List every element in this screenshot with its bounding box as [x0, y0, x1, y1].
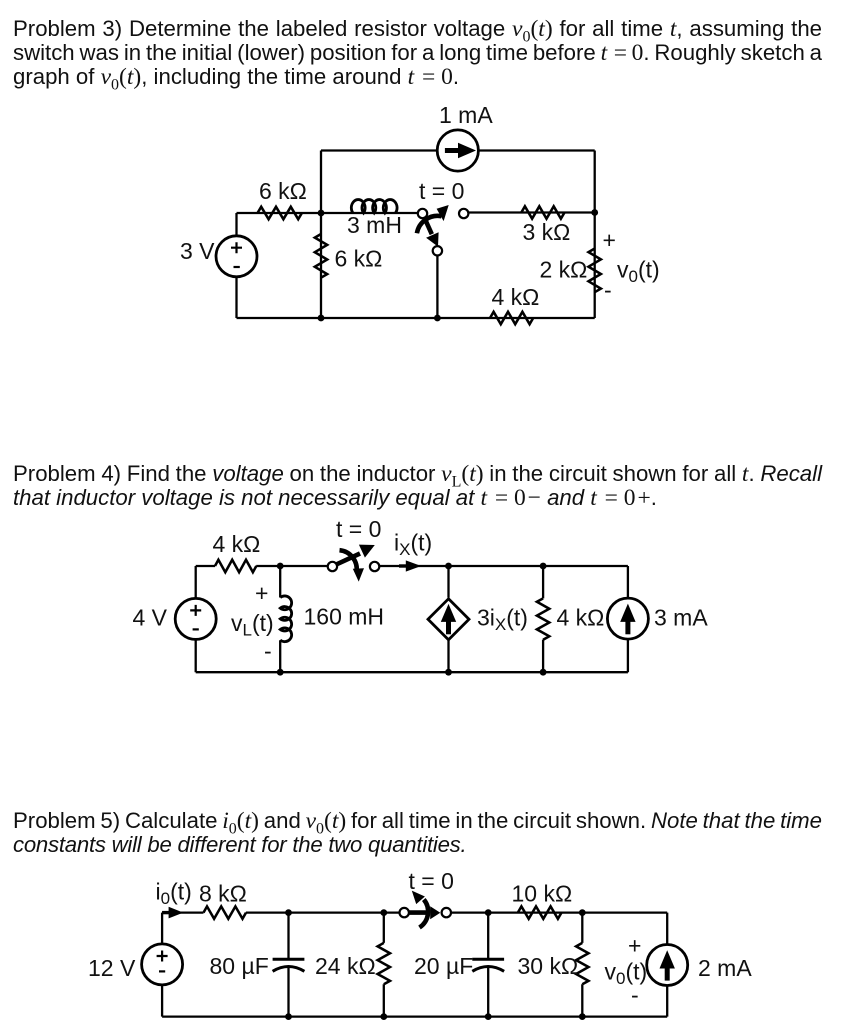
svg-text:t = 0: t = 0 — [419, 178, 464, 204]
Problem 4 statement — [13, 462, 822, 510]
svg-text:+: + — [603, 227, 616, 253]
junction dot P3 middle top — [318, 210, 325, 217]
svg-text:3 kΩ: 3 kΩ — [523, 219, 571, 245]
inductor 160mH P4 — [280, 596, 291, 642]
junction dot P5 30k bottom — [579, 1013, 586, 1020]
wire top-left horizontal P3 — [237, 212, 322, 214]
junction dot P5 24k bottom — [380, 1013, 387, 1020]
wire inductor branch P4 — [279, 566, 281, 672]
junction dot P3 middle bottom — [318, 315, 325, 322]
switch P5: left contact — [400, 908, 409, 917]
junction dot P5 20uF bottom — [485, 1013, 492, 1020]
svg-text:-: - — [631, 982, 639, 1008]
switch P5: arm closing right — [409, 910, 429, 915]
junction dot P5 20uF top — [485, 909, 492, 916]
Problem 3 statement — [13, 17, 822, 89]
wire inductor branch P3 — [321, 212, 418, 214]
junction dot P5 80uF bottom — [285, 1013, 292, 1020]
switch P3: pole contact — [418, 209, 427, 218]
voltage source 12V P5 — [142, 944, 183, 985]
wire switch bottom throw down P3 — [436, 256, 438, 318]
resistor 24k vertical P5 — [378, 943, 390, 984]
svg-text:4 V: 4 V — [133, 605, 168, 631]
voltage source 4V P4 — [175, 598, 216, 639]
wire left rail P5 — [161, 913, 163, 1017]
svg-text:3iX(t): 3iX(t) — [477, 605, 528, 635]
current direction arrow i0 P5 — [162, 911, 170, 914]
svg-text:-: - — [604, 277, 612, 303]
junction dot P4 dep source top — [445, 563, 452, 570]
svg-text:6 kΩ: 6 kΩ — [335, 246, 383, 272]
junction dot P4 dep source bottom — [445, 669, 452, 676]
wire middle vertical rail P3 — [320, 151, 322, 319]
resistor 10k P5 — [518, 906, 562, 918]
junction dot P5 24k top — [380, 909, 387, 916]
Problem 5 statement — [13, 809, 822, 857]
junction dot P4 inductor top — [277, 563, 284, 570]
svg-text:vL(t): vL(t) — [231, 610, 274, 640]
wire 3mA branch P4 — [627, 566, 629, 672]
svg-text:8 kΩ: 8 kΩ — [199, 881, 247, 907]
wire left rail P4 — [195, 566, 197, 672]
svg-text:2 mA: 2 mA — [698, 955, 752, 981]
svg-text:12 V: 12 V — [88, 955, 136, 981]
svg-text:t = 0: t = 0 — [336, 516, 381, 542]
resistor 6k horizontal top-left P3 — [258, 207, 302, 219]
svg-text:3 mA: 3 mA — [654, 605, 708, 631]
switch P4: motion arrow downward — [340, 550, 357, 572]
svg-text:t = 0: t = 0 — [409, 868, 454, 894]
wire 2mA branch P5 — [666, 913, 668, 1017]
wire 4k branch P4 — [542, 566, 544, 672]
wire bottom rail P4 — [196, 671, 628, 673]
junction dot P4 4k top — [540, 563, 547, 570]
switch P4: right contact — [370, 562, 379, 571]
switch P3: motion arrow to upper contact — [417, 216, 442, 233]
svg-text:4 kΩ: 4 kΩ — [557, 605, 605, 631]
wire top rail P3 — [321, 149, 595, 151]
wire switch to 3k P3 — [468, 211, 594, 213]
current source 2mA P5 — [647, 945, 688, 986]
current source 1mA P3 — [437, 130, 478, 171]
resistor 30k vertical P5 — [576, 943, 588, 984]
wire bottom rail P5 — [162, 1015, 667, 1017]
resistor 4k vertical P4 — [537, 598, 549, 639]
svg-text:4 kΩ: 4 kΩ — [492, 284, 540, 310]
svg-text:1 mA: 1 mA — [439, 102, 493, 128]
svg-text:4 kΩ: 4 kΩ — [213, 531, 261, 557]
current source 3mA P4 — [607, 598, 648, 639]
capacitor 20uF P5 — [472, 958, 504, 961]
switch P4: left contact — [328, 562, 337, 571]
capacitor 80uF P5 — [273, 958, 305, 961]
resistor 6k vertical middle P3 — [315, 234, 327, 278]
switch P4: arm opening up-right — [337, 554, 360, 565]
wire left loop P3 — [235, 213, 237, 318]
wire 24k branch P5 — [383, 913, 385, 1017]
wire top rail P4 — [196, 565, 628, 567]
svg-text:20 µF: 20 µF — [414, 953, 473, 979]
svg-text:6 kΩ: 6 kΩ — [259, 178, 307, 204]
svg-text:80 µF: 80 µF — [210, 953, 269, 979]
switch P3: upper throw contact — [459, 209, 468, 218]
svg-text:160 mH: 160 mH — [304, 604, 385, 630]
svg-text:10 kΩ: 10 kΩ — [512, 881, 573, 907]
junction dot P4 inductor bottom — [277, 669, 284, 676]
resistor 3k P3 — [521, 206, 564, 218]
wire 30k branch P5 — [581, 913, 583, 1017]
voltage source 3V P3 — [216, 236, 257, 277]
wire 20uF branch P5 — [487, 913, 489, 1017]
svg-text:v0(t): v0(t) — [617, 257, 660, 287]
wire top rail P5 — [162, 911, 667, 913]
svg-text:3 V: 3 V — [180, 238, 215, 264]
svg-text:v0(t): v0(t) — [605, 959, 648, 989]
switch P5: right contact — [442, 908, 451, 917]
resistor 4k bottom P3 — [490, 312, 533, 324]
dependent source 3ix diamond P4 — [428, 599, 469, 640]
wire dependent source branch P4 — [447, 566, 449, 672]
switch P3: lower throw contact — [433, 246, 442, 255]
switch P5: motion arrow up-left — [420, 900, 429, 928]
svg-text:2 kΩ: 2 kΩ — [540, 257, 588, 283]
junction dot P3 right — [591, 209, 598, 216]
wire 80uF branch P5 — [287, 913, 289, 1017]
svg-text:i0(t): i0(t) — [156, 879, 192, 909]
current direction arrow ix P4 — [399, 564, 407, 567]
junction dot P5 80uF top — [285, 909, 292, 916]
junction dot P3 switch bottom — [434, 315, 441, 322]
switch P3: arm toward lower contact — [425, 218, 432, 234]
svg-text:30 kΩ: 30 kΩ — [518, 953, 579, 979]
junction dot P5 30k top — [579, 909, 586, 916]
resistor 2k vertical right P3 — [589, 249, 601, 293]
svg-text:+: + — [628, 933, 641, 959]
resistor 4k top-left P4 — [215, 560, 256, 572]
junction dot P4 4k bottom — [540, 669, 547, 676]
inductor 3mH P3 — [351, 200, 397, 213]
svg-text:3 mH: 3 mH — [347, 212, 402, 238]
svg-text:24 kΩ: 24 kΩ — [315, 953, 376, 979]
wire bottom rail P3 — [237, 317, 595, 319]
svg-text:iX(t): iX(t) — [394, 530, 432, 560]
svg-text:+: + — [255, 580, 268, 606]
wire right vertical rail P3 — [594, 151, 596, 319]
svg-text:-: - — [264, 638, 272, 664]
resistor 8k P5 — [204, 906, 247, 918]
